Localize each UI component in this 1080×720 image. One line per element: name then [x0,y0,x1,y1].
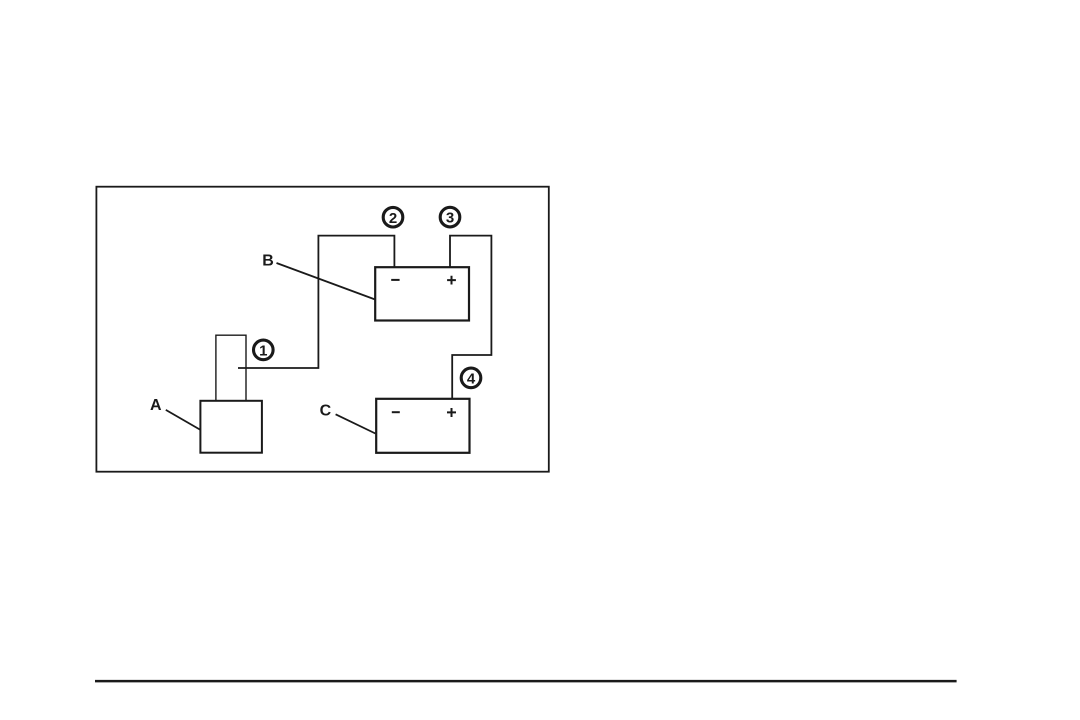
svg-text:C: C [320,403,332,420]
callout circle 2 [383,207,403,227]
svg-text:A: A [150,397,162,414]
battery C positive terminal mark [447,408,456,417]
battery B positive terminal mark [447,276,456,285]
callout circle 1 [253,340,273,360]
battery B [375,267,469,320]
battery C negative terminal mark [392,411,400,413]
wire: cable 3-4 from battery B positive to battery C positive [450,236,491,399]
diagram frame [96,187,548,472]
callout circle 3 [440,207,460,227]
component A body (remote positive terminal block) [200,401,262,453]
leader line B [277,263,375,299]
battery C [376,399,469,453]
leader line C [336,414,376,433]
svg-text:3: 3 [446,210,454,227]
svg-text:4: 4 [467,371,476,388]
callout circle 4 [461,368,481,388]
wire: cable 1-2 from A to battery B negative [238,236,394,368]
svg-text:B: B [262,253,274,270]
svg-text:2: 2 [389,210,397,227]
footer rule [95,680,957,683]
leader line A [166,410,200,430]
svg-text:1: 1 [259,343,267,360]
component A neck [216,335,246,401]
battery B negative terminal mark [391,279,399,281]
